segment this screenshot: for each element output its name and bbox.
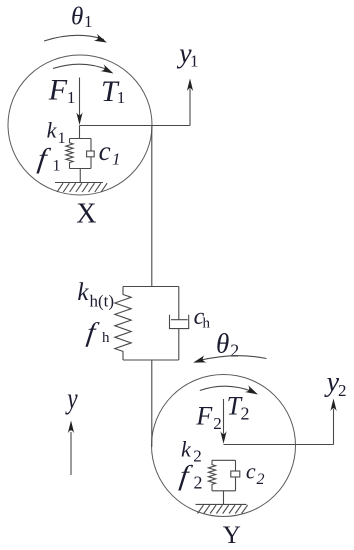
- svg-text:2: 2: [338, 381, 347, 400]
- svg-text:1: 1: [117, 88, 126, 107]
- svg-text:y: y: [65, 381, 78, 414]
- svg-text:2: 2: [213, 414, 222, 433]
- svg-text:θ: θ: [216, 329, 229, 359]
- svg-text:c: c: [246, 458, 256, 483]
- svg-text:2: 2: [230, 340, 239, 360]
- svg-text:1: 1: [112, 150, 121, 169]
- svg-text:X: X: [76, 199, 96, 230]
- svg-text:1: 1: [53, 157, 61, 174]
- svg-text:k: k: [181, 437, 192, 462]
- svg-text:2: 2: [241, 403, 250, 423]
- svg-text:h(t): h(t): [90, 292, 115, 311]
- svg-text:k: k: [47, 118, 58, 143]
- svg-text:h: h: [102, 330, 110, 346]
- svg-text:Y: Y: [223, 522, 241, 549]
- svg-text:1: 1: [84, 12, 93, 31]
- svg-text:h: h: [203, 316, 211, 332]
- svg-text:1: 1: [67, 88, 76, 107]
- svg-text:c: c: [99, 136, 111, 166]
- svg-text:F: F: [195, 401, 213, 430]
- svg-text:θ: θ: [71, 3, 83, 30]
- svg-text:1: 1: [58, 130, 66, 147]
- svg-text:k: k: [77, 279, 89, 306]
- svg-text:2: 2: [257, 471, 265, 488]
- svg-text:2: 2: [194, 473, 203, 493]
- svg-text:F: F: [48, 73, 68, 106]
- svg-text:2: 2: [193, 446, 202, 465]
- svg-text:1: 1: [190, 52, 199, 71]
